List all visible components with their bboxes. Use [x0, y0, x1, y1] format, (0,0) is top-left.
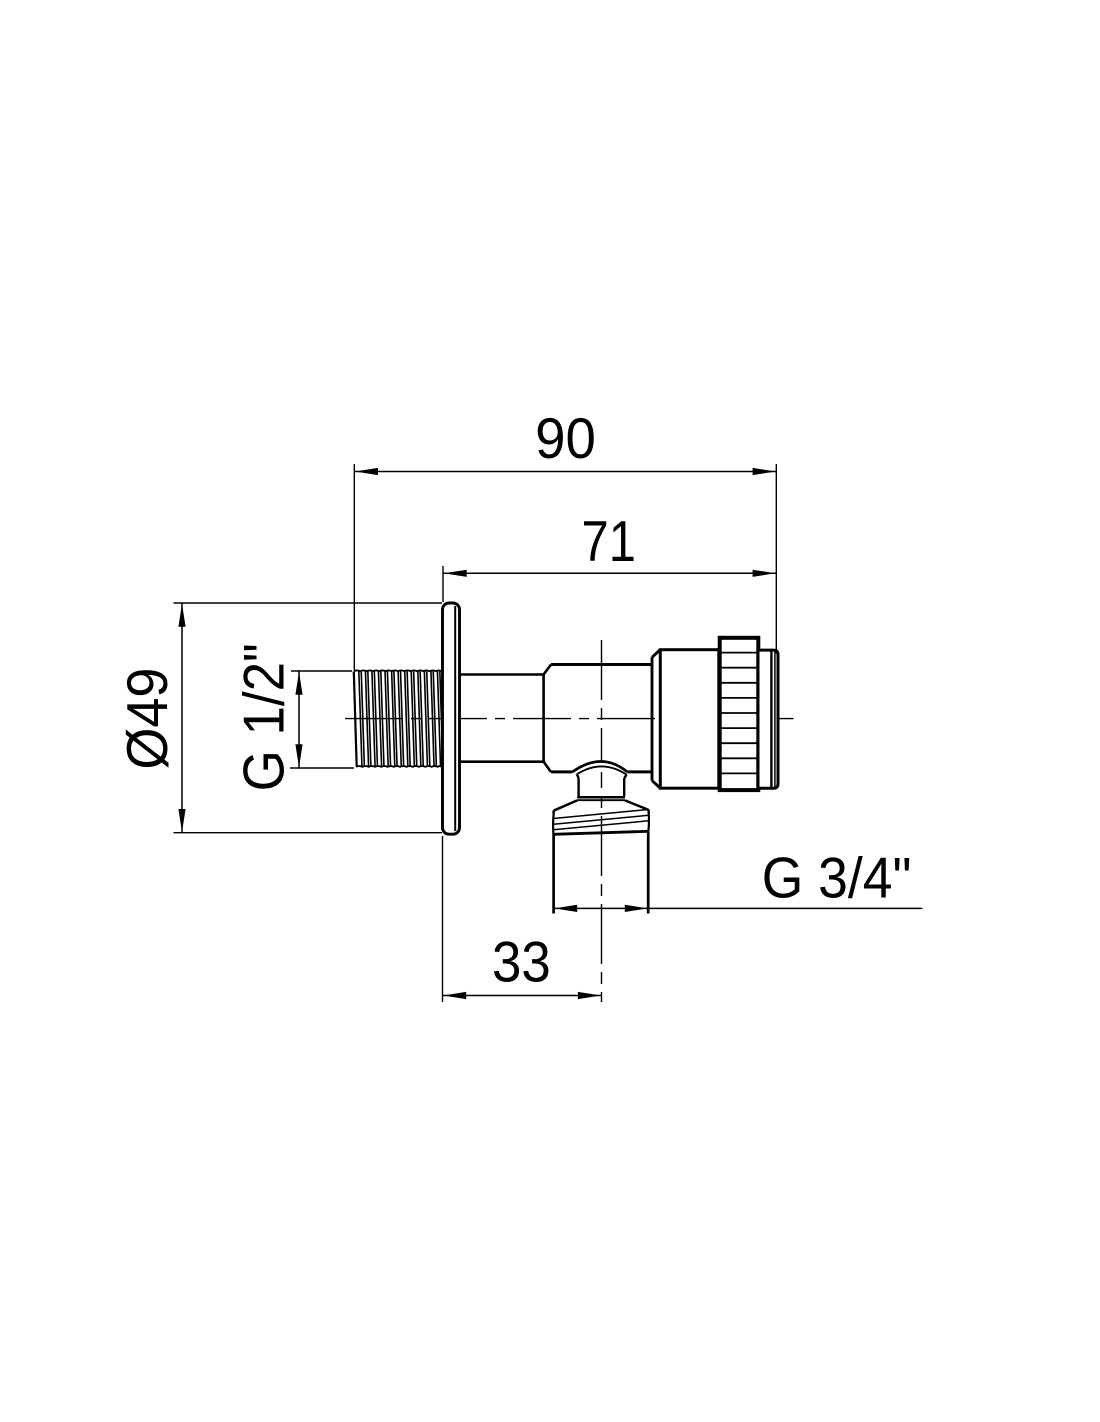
svg-text:G 1/2": G 1/2"	[231, 643, 296, 791]
dimension 71 arrow right	[753, 570, 776, 577]
dimension 33 arrow left	[443, 992, 466, 999]
inlet pipe left end edge	[354, 672, 357, 767]
dimension G3/4 line and leader	[554, 907, 923, 909]
dimension D49 arrow bottom	[178, 809, 185, 832]
centerline horizontal main axis	[345, 718, 794, 720]
body right step face	[651, 657, 654, 780]
dimension G1/2 extension line top	[291, 670, 352, 672]
neck pipe bottom edge	[460, 760, 544, 763]
outlet neck right side	[624, 775, 627, 796]
svg-text:33: 33	[492, 929, 551, 994]
dimension D49 line	[181, 603, 183, 833]
dimension G1/2 extension line bottom	[290, 767, 354, 769]
body top edge	[551, 663, 652, 666]
body left top chamfer	[544, 665, 551, 675]
outlet saddle outer arch	[573, 762, 628, 772]
body right top chamfer	[652, 650, 660, 658]
outlet saddle inner arch	[577, 766, 627, 774]
dimension G1/2 arrow bottom	[295, 744, 302, 767]
outlet thread left edge	[552, 813, 555, 835]
dimension 71 line	[443, 572, 776, 574]
dimension 71 arrow left	[444, 570, 467, 577]
dimension 90 arrow right	[753, 468, 776, 475]
inlet pipe G1/2 male thread hatch	[359, 670, 443, 768]
svg-text:G 3/4": G 3/4"	[762, 846, 912, 910]
inlet thread crest bottom edge	[356, 765, 442, 768]
neck pipe top edge	[460, 673, 544, 676]
dimension 90 line	[354, 471, 776, 473]
outlet pipe left edge	[552, 834, 555, 913]
dimension G3/4 arrow left	[554, 905, 577, 912]
svg-text:71: 71	[582, 510, 636, 574]
dimension 90 extension line left	[353, 464, 355, 670]
outlet thread right edge	[647, 812, 650, 832]
outlet washer upper line	[577, 796, 625, 799]
dimension D49 extension line top	[174, 602, 443, 604]
outlet washer lower line	[577, 799, 625, 801]
body right bottom chamfer	[652, 781, 660, 789]
wall flange disc	[443, 603, 460, 834]
end cap cylinder	[760, 650, 779, 788]
dimension 90 arrow left	[355, 468, 378, 475]
dimension 71 extension line left	[442, 566, 444, 602]
end cap fillet line	[774, 651, 776, 787]
outlet flare right	[625, 800, 649, 812]
body left step face	[542, 675, 545, 762]
dimension 33 extension line left	[442, 836, 444, 1002]
outlet neck left side	[577, 775, 579, 797]
dimension 33 line	[443, 995, 602, 997]
dimension G1/2 arrow top	[295, 672, 302, 695]
outlet flare left	[554, 800, 578, 813]
svg-text:90: 90	[535, 406, 596, 471]
dimension 90 extension line right	[775, 464, 777, 654]
bonnet cylinder	[660, 650, 719, 789]
knurled handle ring	[720, 638, 759, 790]
dimension G3/4 arrow right	[625, 905, 648, 912]
body left bottom chamfer	[544, 762, 551, 772]
outlet thread G3/4 bottom edge	[553, 831, 648, 834]
body bottom edge left of outlet	[551, 770, 573, 773]
dimension D49 extension line bottom	[174, 832, 443, 834]
wall flange front face line	[454, 606, 456, 831]
outlet thread G3/4 slanted crest lines	[553, 810, 648, 819]
inlet thread crest top edge	[354, 669, 442, 672]
body bottom edge right of outlet	[627, 770, 652, 773]
dimension D49 arrow top	[178, 604, 185, 627]
centerline vertical outlet axis	[601, 640, 603, 1002]
dimension 33 arrow right	[578, 992, 601, 999]
dimension G1/2 line	[298, 671, 300, 768]
outlet pipe right edge	[647, 832, 650, 914]
end cap inner edge line	[770, 651, 772, 788]
svg-text:Ø49: Ø49	[114, 668, 179, 770]
